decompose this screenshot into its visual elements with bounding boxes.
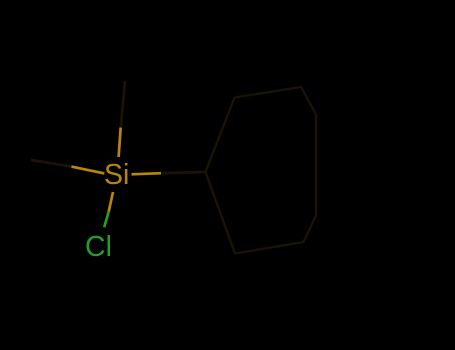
svg-text:Si: Si [104,159,129,191]
bond Si-CH3 left, C half [31,160,71,167]
ring cycloheptane C1-C7 [206,87,317,254]
bond Si-CH3 left, Si half [71,167,104,174]
bond Si-Cl, Cl half [104,212,109,228]
bond Si-ring C1, Si half [132,173,162,174]
bond Si-CH3 up, Si half [119,128,121,158]
bond Si-ring C1, C half [161,172,206,173]
bond Si-Cl, Si half [109,192,113,212]
svg-text:Cl: Cl [85,231,112,263]
bond Si-CH3 up, C half [121,81,125,128]
